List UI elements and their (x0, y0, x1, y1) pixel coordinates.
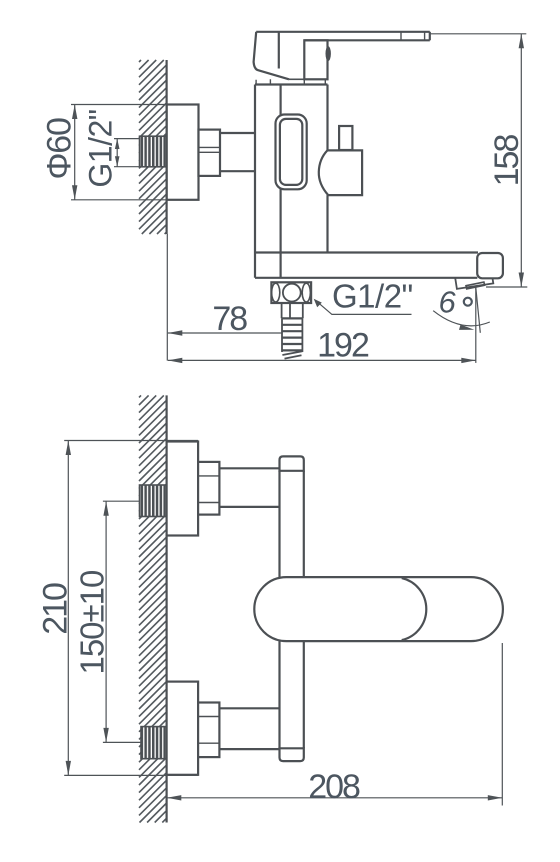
cartridge cap (304, 40, 327, 79)
body column (280, 471, 304, 577)
wall face extension line (to 78/192 dims) (166, 234, 168, 361)
hose nipple with thread (282, 303, 303, 359)
hex nut on inlet (side view) (199, 130, 221, 176)
diverter knob (319, 126, 362, 195)
spout (side view) (255, 253, 503, 279)
body column bottom cap (280, 748, 304, 761)
svg-text:G1/2": G1/2" (83, 109, 119, 187)
hand-shower hose union (circles fitting) (271, 282, 311, 303)
lever bar (256, 32, 430, 41)
dimension 210 (37, 441, 199, 776)
wall thread (upper eccentric) (140, 485, 167, 517)
handle hub (254, 32, 289, 80)
front plate (rounded rect, double line) (276, 115, 307, 190)
escutcheon flange (side view) (167, 105, 199, 200)
neck ring under handle (256, 79, 325, 84)
svg-text:G1/2": G1/2" (332, 277, 413, 314)
wall thread (lower eccentric) (141, 727, 167, 759)
dimension 208 (167, 643, 503, 806)
dimension 192 (168, 327, 476, 365)
svg-text:78: 78 (212, 300, 247, 338)
svg-text:210: 210 (37, 583, 75, 635)
svg-text:Φ60: Φ60 (41, 118, 79, 180)
svg-text:208: 208 (308, 768, 360, 806)
label G1/2 (hose outlet) with leader (314, 277, 413, 314)
wall (hatched section, lower drawing) (139, 395, 167, 822)
svg-text:158: 158 (488, 135, 526, 187)
dimension G1/2 (wall thread) (83, 109, 141, 187)
6 deg angle annotation (433, 285, 490, 363)
escutcheon (upper inlet) (167, 442, 199, 536)
inlet pipe nut-to-body (220, 133, 256, 171)
wall (hatched section, upper drawing) (139, 60, 167, 234)
inlet pipe (lower) (219, 708, 279, 749)
aerator (tilted 6 deg) (455, 278, 493, 289)
wall pipe thread (G1/2) (140, 136, 167, 167)
svg-text:192: 192 (317, 327, 369, 365)
hex nut (upper) (198, 462, 219, 515)
body column top cap (280, 456, 304, 470)
body/spout pill (plan) (254, 577, 503, 641)
lever pivot pin (326, 46, 331, 61)
faucet body (side view) (255, 85, 328, 278)
svg-text:150±10: 150±10 (74, 570, 111, 675)
dimension 78 (168, 300, 282, 338)
hex nut (lower) (198, 703, 219, 758)
dimension Phi60 (41, 105, 167, 200)
inlet pipe (upper) (219, 468, 279, 507)
dimension 150+-10 (74, 501, 142, 742)
escutcheon (lower inlet) (167, 682, 199, 775)
dimension 158 (right) (430, 34, 528, 287)
